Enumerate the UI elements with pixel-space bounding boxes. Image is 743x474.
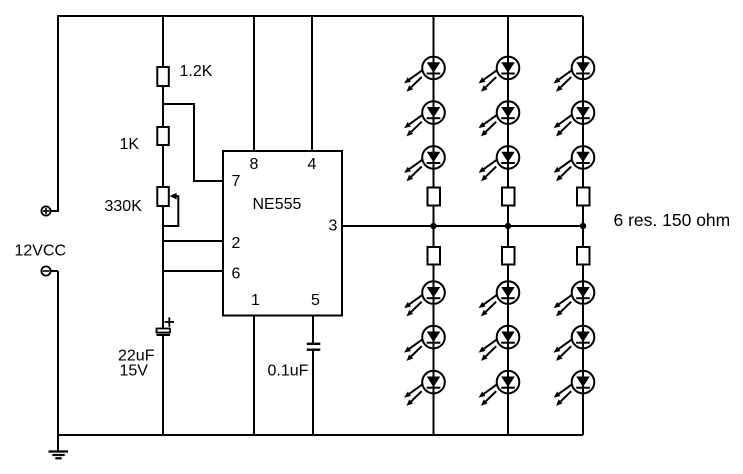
LED D5 (404, 326, 445, 361)
LED D18 (554, 371, 595, 406)
LED D12 (479, 371, 520, 406)
resistor R6 150 ohm (502, 247, 515, 265)
wire minus terminal to bottom rail (51, 271, 59, 435)
wire pin 5 to C2 (312, 316, 314, 344)
svg-text:7: 7 (232, 173, 241, 190)
junction column 3 (580, 223, 586, 229)
LED D11 (479, 326, 520, 361)
wire pin 1 to ground rail (253, 316, 255, 436)
wire C1 to bottom rail (162, 336, 164, 435)
wire pin 8 to rail (253, 16, 255, 151)
LED D17 (554, 326, 595, 361)
LED D8 (479, 101, 520, 136)
wire left supply branch (51, 15, 59, 211)
wire pin 2 (163, 240, 223, 242)
wire pot to capacitor C1 (162, 206, 164, 329)
terminal minus (41, 266, 50, 275)
resistor R1 1.2K (157, 67, 169, 86)
resistor R7 150 ohm (577, 188, 590, 206)
wire column 2 mid (507, 206, 509, 248)
svg-text:2: 2 (232, 235, 241, 252)
wire pin 3 output bus (342, 225, 583, 227)
junction column 2 (505, 223, 511, 229)
LED D10 (479, 281, 520, 316)
wire C2 to ground rail (312, 350, 314, 435)
wire R2 to potentiometer (162, 145, 164, 187)
LED D4 (404, 281, 445, 316)
wire top supply rail (58, 15, 583, 17)
wire column 3 mid (582, 206, 584, 248)
svg-text:1K: 1K (120, 136, 140, 153)
wire column 2 anode chain (507, 16, 509, 188)
wire R1 to R2 (162, 86, 164, 127)
svg-text:6 res. 150 ohm: 6 res. 150 ohm (614, 210, 731, 230)
terminal plus (41, 206, 50, 215)
svg-text:NE555: NE555 (253, 196, 302, 213)
svg-text:8: 8 (250, 156, 259, 173)
junction column 1 (430, 223, 436, 229)
wire column 3 anode chain (582, 16, 584, 188)
resistor R8 150 ohm (577, 247, 590, 265)
ground (49, 435, 69, 458)
wire column 2 cathode chain (507, 265, 509, 436)
IC U1 NE555 body (223, 151, 342, 316)
svg-text:5: 5 (311, 292, 320, 309)
resistor R3 150 ohm (428, 188, 441, 206)
LED D3 (404, 146, 445, 181)
wire pin 6 (163, 270, 223, 272)
wire column 3 cathode chain (582, 265, 584, 436)
wire bottom ground rail (58, 434, 583, 436)
label 22uF 15V (118, 347, 155, 379)
svg-text:6: 6 (232, 265, 241, 282)
LED D2 (404, 101, 445, 136)
potentiometer 330K (157, 187, 178, 226)
wire top rail to R1 (162, 16, 164, 67)
LED D6 (404, 371, 445, 406)
svg-text:1.2K: 1.2K (180, 63, 213, 80)
svg-text:330K: 330K (105, 198, 143, 215)
svg-text:15V: 15V (120, 363, 149, 380)
LED D16 (554, 281, 595, 316)
wire node to pin 7 (163, 104, 223, 181)
LED D14 (554, 101, 595, 136)
svg-text:4: 4 (308, 156, 317, 173)
svg-text:1: 1 (251, 292, 260, 309)
wire column 1 cathode chain (433, 265, 435, 436)
capacitor C1 22uF polarized (157, 317, 175, 335)
resistor R4 150 ohm (428, 247, 441, 265)
wire column 1 mid (433, 206, 435, 248)
capacitor C2 0.1uF (307, 344, 321, 350)
LED D7 (479, 57, 520, 92)
LED D15 (554, 146, 595, 181)
LED D1 (404, 57, 445, 92)
LED D9 (479, 146, 520, 181)
wire pin 4 to rail (311, 16, 313, 151)
wire column 1 anode chain (433, 16, 435, 188)
resistor R5 150 ohm (502, 188, 515, 206)
svg-text:3: 3 (329, 218, 338, 235)
resistor R2 1K (157, 127, 169, 145)
svg-text:12VCC: 12VCC (15, 243, 67, 260)
svg-text:0.1uF: 0.1uF (268, 363, 309, 380)
LED D13 (554, 57, 595, 92)
